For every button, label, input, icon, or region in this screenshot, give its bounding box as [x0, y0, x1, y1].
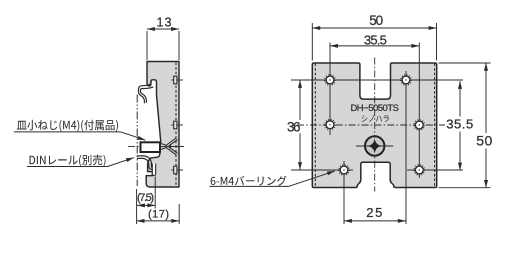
horizontal centerline of screw row (side view)	[128, 145, 184, 147]
svg-text:50: 50	[476, 133, 492, 149]
front-view plate body with notches	[312, 63, 436, 188]
M4 burring hole mid-right	[414, 120, 424, 130]
hidden bend lines (front view)	[314, 64, 316, 188]
dimension 35.5 (right)	[459, 81, 461, 171]
svg-text:(7.5): (7.5)	[137, 192, 154, 204]
svg-text:36: 36	[287, 119, 301, 134]
DIN rail bottom flange outline	[137, 156, 153, 169]
hidden line (back flange) side view	[175, 63, 177, 187]
bottom hook slot of plate (side view)	[152, 164, 155, 176]
burring hole side marks (rows y=80,125,170)	[171, 80, 183, 170]
vertical centerline (front view)	[374, 58, 376, 192]
M4 burring hole top-left	[325, 75, 335, 85]
M4 burring hole bottom-right	[414, 165, 424, 175]
svg-text:25: 25	[366, 205, 382, 220]
DIN rail top flange outline	[139, 81, 154, 103]
label: 6-M4 burring + leader	[211, 176, 287, 186]
svg-text:35.5: 35.5	[364, 33, 387, 48]
label: DIN rail (betsubai) + leader	[30, 155, 106, 167]
side-view plate body (gray section)	[146, 62, 179, 188]
dimension 50 (top)	[312, 27, 436, 29]
screw tip / burring funnel (side view)	[160, 138, 177, 155]
dimension 36 (left)	[299, 80, 301, 170]
dimension 25 (bottom)	[344, 220, 406, 222]
hole row / column centerlines & extension lines	[291, 23, 491, 224]
dimension 35.5 (top)	[330, 45, 419, 47]
M4 burring hole top-right	[401, 75, 411, 85]
dimension (17)	[137, 189, 180, 224]
label: sara-koneji (M4) (fuzokuhin) + leader	[17, 120, 118, 132]
DIN rail phantom line (two-dot chain)	[136, 95, 138, 187]
dimension 13 (top of side view)	[147, 29, 179, 60]
svg-text:35.5: 35.5	[446, 117, 473, 132]
dimension 50 (right)	[485, 63, 487, 188]
center screw (front view, phillips flat head)	[356, 136, 393, 155]
svg-text:50: 50	[369, 13, 383, 28]
svg-text:DH−5050TS: DH−5050TS	[350, 103, 399, 114]
horizontal centerline (front view)	[297, 124, 445, 126]
screw head (side view, flat head M4)	[141, 142, 161, 152]
svg-text:(17): (17)	[148, 209, 169, 221]
dimension (7.5)	[137, 177, 155, 209]
svg-text:13: 13	[157, 16, 172, 30]
M4 burring hole mid-left	[325, 120, 335, 130]
M4 burring hole bottom-left	[339, 165, 349, 175]
